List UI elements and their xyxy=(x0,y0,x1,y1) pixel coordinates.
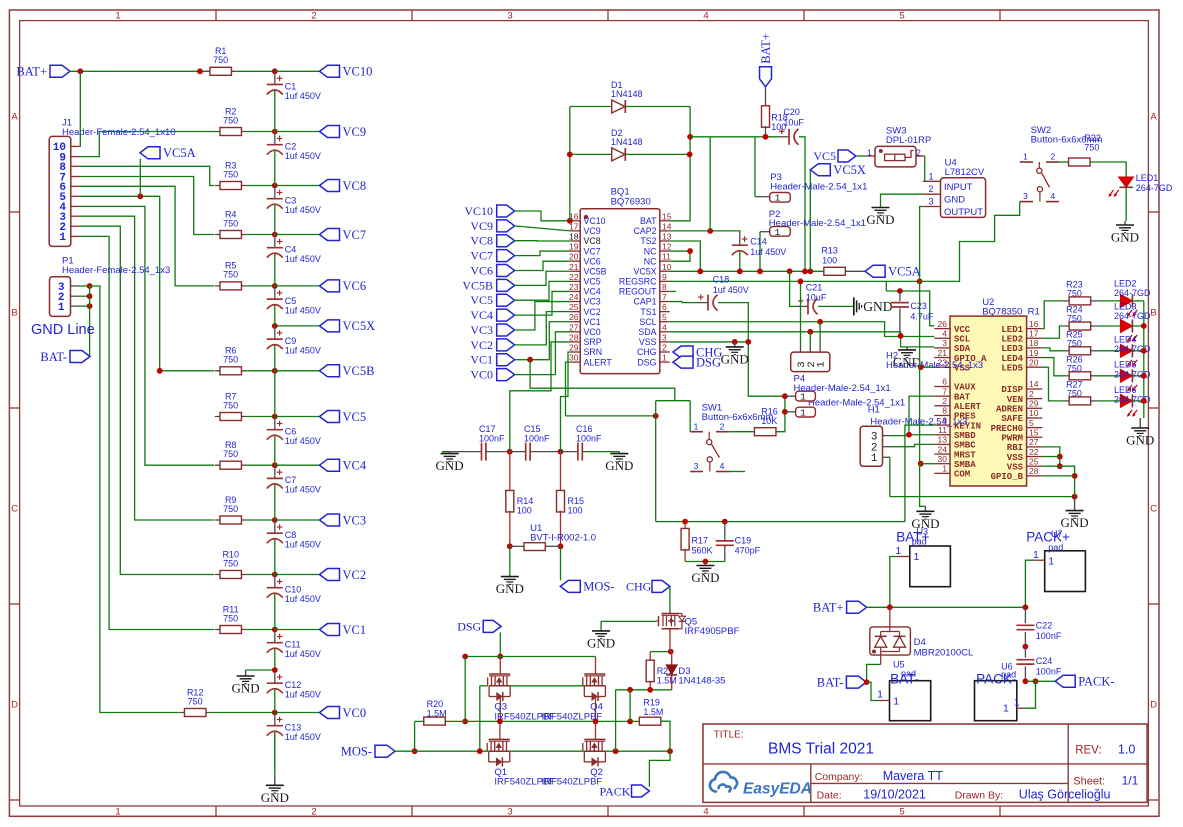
svg-text:100nF: 100nF xyxy=(1036,631,1062,641)
svg-text:4: 4 xyxy=(942,328,947,338)
svg-text:30: 30 xyxy=(938,454,948,464)
svg-text:EasyEDA: EasyEDA xyxy=(743,781,812,798)
svg-text:LED4: LED4 xyxy=(1001,354,1023,364)
svg-text:CAP2: CAP2 xyxy=(634,226,657,236)
svg-text:3: 3 xyxy=(507,11,512,22)
svg-text:560K: 560K xyxy=(692,545,713,555)
svg-text:4: 4 xyxy=(1051,191,1056,201)
svg-text:1: 1 xyxy=(694,421,699,431)
svg-text:VC6: VC6 xyxy=(343,279,367,293)
svg-text:R19: R19 xyxy=(643,698,660,708)
svg-text:VC7: VC7 xyxy=(343,228,367,242)
svg-text:BAT-: BAT- xyxy=(40,350,67,364)
svg-text:28: 28 xyxy=(1029,466,1039,476)
svg-text:1: 1 xyxy=(893,696,899,708)
svg-text:100: 100 xyxy=(568,506,583,516)
svg-text:VC1: VC1 xyxy=(470,353,493,367)
svg-text:1: 1 xyxy=(942,464,947,474)
svg-text:1: 1 xyxy=(877,689,883,701)
svg-text:GND: GND xyxy=(866,212,894,227)
svg-text:750: 750 xyxy=(223,613,238,623)
svg-text:VC0: VC0 xyxy=(470,368,493,382)
svg-text:264-7GD: 264-7GD xyxy=(1114,311,1151,321)
svg-text:SMBA: SMBA xyxy=(954,460,976,470)
svg-text:LED2: LED2 xyxy=(1114,278,1137,288)
svg-text:1uf 450V: 1uf 450V xyxy=(285,690,321,700)
svg-text:C6: C6 xyxy=(285,427,297,437)
svg-text:1uf 450V: 1uf 450V xyxy=(285,649,321,659)
svg-text:4.7uF: 4.7uF xyxy=(910,312,934,322)
svg-text:13: 13 xyxy=(938,435,948,445)
svg-text:4: 4 xyxy=(703,807,708,818)
svg-text:VAUX: VAUX xyxy=(954,383,976,393)
svg-text:4: 4 xyxy=(662,322,667,332)
svg-text:GND: GND xyxy=(1126,433,1154,448)
svg-text:25: 25 xyxy=(1029,456,1039,466)
svg-text:BAT+: BAT+ xyxy=(813,601,844,615)
svg-text:Date:: Date: xyxy=(817,790,842,802)
svg-text:Header-Female-2.54_1x10: Header-Female-2.54_1x10 xyxy=(62,127,176,138)
svg-text:1N4148-35: 1N4148-35 xyxy=(678,676,725,687)
svg-text:VC5: VC5 xyxy=(584,277,601,287)
svg-text:1uf 450V: 1uf 450V xyxy=(285,436,321,446)
svg-text:30: 30 xyxy=(569,353,579,363)
svg-text:BQ76930: BQ76930 xyxy=(611,196,651,207)
svg-text:14: 14 xyxy=(1029,379,1039,389)
svg-text:20: 20 xyxy=(569,252,579,262)
svg-text:ALERT: ALERT xyxy=(954,402,982,412)
svg-text:SRP: SRP xyxy=(584,337,602,347)
svg-text:Header-Male-2.54_1x1: Header-Male-2.54_1x1 xyxy=(770,181,867,192)
svg-text:1uf 450V: 1uf 450V xyxy=(750,247,786,257)
svg-text:3: 3 xyxy=(1023,191,1028,201)
svg-text:BAT: BAT xyxy=(640,216,657,226)
svg-text:COM: COM xyxy=(954,470,970,480)
svg-text:VC9: VC9 xyxy=(343,125,367,139)
svg-text:8: 8 xyxy=(942,406,947,416)
svg-text:MOS-: MOS- xyxy=(341,745,372,759)
svg-text:24: 24 xyxy=(569,292,579,302)
svg-text:1.0: 1.0 xyxy=(1118,742,1135,756)
svg-text:VC5B: VC5B xyxy=(343,364,375,378)
svg-text:C: C xyxy=(11,503,18,514)
svg-text:VC5X: VC5X xyxy=(343,319,376,333)
svg-text:Header-Male-2.54_1x3: Header-Male-2.54_1x3 xyxy=(870,416,967,427)
svg-text:1: 1 xyxy=(115,807,120,818)
svg-text:C: C xyxy=(1150,503,1157,514)
svg-text:REV:: REV: xyxy=(1075,744,1101,756)
svg-text:H1: H1 xyxy=(868,404,880,415)
svg-text:Ulaş Görcelioğlu: Ulaş Görcelioğlu xyxy=(1019,788,1111,802)
svg-text:1uf 450V: 1uf 450V xyxy=(285,594,321,604)
svg-text:2: 2 xyxy=(1029,389,1034,399)
svg-text:12: 12 xyxy=(662,242,672,252)
svg-text:3: 3 xyxy=(662,332,667,342)
svg-text:SDA: SDA xyxy=(954,344,971,354)
svg-text:VC10: VC10 xyxy=(464,204,493,218)
svg-text:29: 29 xyxy=(569,343,579,353)
svg-text:27: 27 xyxy=(1029,437,1039,447)
svg-text:2: 2 xyxy=(1051,152,1056,162)
svg-text:VC5X: VC5X xyxy=(634,266,657,276)
svg-text:5: 5 xyxy=(899,11,904,22)
svg-text:PACK-: PACK- xyxy=(1078,675,1114,689)
svg-text:DSG: DSG xyxy=(696,355,721,369)
svg-text:SDA: SDA xyxy=(638,327,656,337)
svg-text:U7: U7 xyxy=(1051,529,1063,539)
svg-text:2: 2 xyxy=(311,11,316,22)
svg-text:5: 5 xyxy=(899,807,904,818)
svg-text:VC8: VC8 xyxy=(343,179,367,193)
svg-text:Mavera TT: Mavera TT xyxy=(883,769,944,783)
svg-text:L7812CV: L7812CV xyxy=(945,167,985,178)
svg-text:10K: 10K xyxy=(761,416,777,426)
svg-text:264-7GD: 264-7GD xyxy=(1136,183,1173,193)
svg-text:100nF: 100nF xyxy=(1036,667,1062,677)
svg-text:1: 1 xyxy=(662,353,667,363)
svg-text:MOS-: MOS- xyxy=(583,580,614,594)
svg-text:CHG: CHG xyxy=(626,580,652,594)
svg-text:100nF: 100nF xyxy=(524,434,550,444)
svg-text:MBR20100CL: MBR20100CL xyxy=(914,648,974,659)
svg-text:750: 750 xyxy=(223,558,238,568)
svg-text:1: 1 xyxy=(58,302,65,314)
svg-text:VC2: VC2 xyxy=(343,568,367,582)
svg-text:B: B xyxy=(1150,307,1156,318)
svg-text:VC4: VC4 xyxy=(584,287,601,297)
svg-text:BAT+: BAT+ xyxy=(759,33,773,64)
svg-text:C20: C20 xyxy=(783,107,800,117)
svg-text:GND: GND xyxy=(721,351,749,366)
svg-text:Drawn By:: Drawn By: xyxy=(955,790,1003,802)
svg-text:BAT: BAT xyxy=(954,392,971,402)
svg-text:10: 10 xyxy=(662,262,672,272)
svg-text:20: 20 xyxy=(1029,357,1039,367)
svg-text:REGSRC: REGSRC xyxy=(619,277,657,287)
svg-text:4: 4 xyxy=(720,461,725,471)
svg-text:1: 1 xyxy=(914,551,920,563)
svg-text:C5: C5 xyxy=(285,296,297,306)
svg-text:GND: GND xyxy=(944,195,965,206)
svg-text:VSS: VSS xyxy=(1007,462,1024,472)
svg-text:1N4148: 1N4148 xyxy=(611,137,643,147)
svg-text:C1: C1 xyxy=(285,81,297,91)
svg-text:19/10/2021: 19/10/2021 xyxy=(863,788,926,802)
svg-text:DSG: DSG xyxy=(457,620,481,634)
svg-text:C21: C21 xyxy=(806,282,823,292)
svg-text:VSS: VSS xyxy=(639,337,657,347)
svg-text:REGOUT: REGOUT xyxy=(619,287,657,297)
svg-text:GND Line: GND Line xyxy=(31,322,95,338)
svg-text:750: 750 xyxy=(223,115,238,125)
svg-text:NC: NC xyxy=(644,246,657,256)
svg-text:10uF: 10uF xyxy=(806,293,827,303)
svg-text:1: 1 xyxy=(928,171,933,181)
svg-text:MRST: MRST xyxy=(954,450,976,460)
svg-text:PRECHG: PRECHG xyxy=(991,424,1023,434)
svg-text:VSS: VSS xyxy=(1007,453,1024,463)
svg-text:8: 8 xyxy=(662,282,667,292)
svg-text:C8: C8 xyxy=(285,530,297,540)
svg-text:SCL: SCL xyxy=(954,334,970,344)
svg-text:GND: GND xyxy=(691,570,719,585)
svg-text:CAP1: CAP1 xyxy=(634,297,657,307)
svg-text:LED5: LED5 xyxy=(1001,363,1023,373)
svg-text:VC4: VC4 xyxy=(470,308,493,322)
svg-text:VC5B: VC5B xyxy=(462,278,493,292)
svg-text:IRF4905PBF: IRF4905PBF xyxy=(685,626,740,637)
svg-text:21: 21 xyxy=(938,348,948,358)
svg-text:2: 2 xyxy=(311,807,316,818)
svg-text:VC3: VC3 xyxy=(470,323,493,337)
svg-text:750: 750 xyxy=(223,355,238,365)
svg-text:7: 7 xyxy=(942,386,947,396)
svg-text:INPUT: INPUT xyxy=(944,182,973,193)
svg-text:VC9: VC9 xyxy=(584,226,601,236)
svg-text:A: A xyxy=(11,111,18,122)
svg-text:1: 1 xyxy=(115,11,120,22)
svg-text:C23: C23 xyxy=(910,301,927,311)
svg-text:OUTPUT: OUTPUT xyxy=(944,207,983,218)
svg-text:1uf 450V: 1uf 450V xyxy=(285,205,321,215)
svg-text:VC10: VC10 xyxy=(343,65,373,79)
svg-text:2: 2 xyxy=(928,184,933,194)
svg-text:PWRM: PWRM xyxy=(1001,433,1023,443)
svg-text:pad: pad xyxy=(1001,670,1016,680)
svg-text:13: 13 xyxy=(662,231,672,241)
svg-text:25: 25 xyxy=(569,302,579,312)
svg-text:TITLE:: TITLE: xyxy=(714,730,744,741)
svg-text:750: 750 xyxy=(223,270,238,280)
svg-text:C3: C3 xyxy=(285,196,297,206)
svg-text:750: 750 xyxy=(1084,142,1099,152)
svg-text:Q4: Q4 xyxy=(590,702,603,713)
svg-text:1: 1 xyxy=(1003,703,1009,715)
svg-text:pad: pad xyxy=(901,669,916,679)
svg-text:LED1: LED1 xyxy=(1136,173,1159,183)
svg-text:GND: GND xyxy=(1061,515,1089,530)
svg-text:18: 18 xyxy=(1029,338,1039,348)
svg-text:750: 750 xyxy=(188,696,203,706)
svg-text:Q2: Q2 xyxy=(590,767,603,778)
svg-text:IRF540ZLPBF: IRF540ZLPBF xyxy=(542,777,603,788)
svg-text:1: 1 xyxy=(1048,556,1054,568)
svg-text:29: 29 xyxy=(1029,399,1039,409)
svg-text:VC1: VC1 xyxy=(584,317,601,327)
svg-text:VC0: VC0 xyxy=(343,706,367,720)
svg-text:LED3: LED3 xyxy=(1001,344,1023,354)
svg-text:C17: C17 xyxy=(479,424,496,434)
svg-text:ALERT: ALERT xyxy=(584,357,613,367)
svg-text:NC: NC xyxy=(644,256,657,266)
svg-text:LED3: LED3 xyxy=(1114,301,1137,311)
svg-text:1.5M: 1.5M xyxy=(643,707,663,717)
svg-text:DSG: DSG xyxy=(637,357,656,367)
svg-text:1: 1 xyxy=(816,361,828,367)
svg-text:C16: C16 xyxy=(576,424,593,434)
svg-text:GND: GND xyxy=(436,458,464,473)
svg-text:SAFE: SAFE xyxy=(1001,414,1023,424)
svg-text:9: 9 xyxy=(662,272,667,282)
svg-text:VCC: VCC xyxy=(954,325,971,335)
svg-text:2: 2 xyxy=(720,421,725,431)
svg-text:VC8: VC8 xyxy=(584,236,601,246)
svg-text:1: 1 xyxy=(59,232,66,244)
svg-text:Company:: Company: xyxy=(815,771,863,783)
svg-text:C14: C14 xyxy=(750,237,767,247)
svg-text:1: 1 xyxy=(895,545,901,557)
svg-text:GND: GND xyxy=(893,354,921,369)
svg-text:RBI: RBI xyxy=(1007,443,1023,453)
svg-text:C19: C19 xyxy=(735,536,752,546)
svg-text:2: 2 xyxy=(942,396,947,406)
svg-text:pad: pad xyxy=(912,537,927,547)
svg-text:1uf 450V: 1uf 450V xyxy=(285,91,321,101)
svg-text:BMS Trial 2021: BMS Trial 2021 xyxy=(768,740,874,757)
svg-text:1uf 450V: 1uf 450V xyxy=(285,151,321,161)
svg-text:26: 26 xyxy=(938,319,948,329)
svg-text:1: 1 xyxy=(871,453,878,465)
svg-text:C9: C9 xyxy=(285,336,297,346)
svg-text:1: 1 xyxy=(775,227,781,238)
svg-text:C22: C22 xyxy=(1036,621,1053,631)
svg-text:750: 750 xyxy=(223,449,238,459)
svg-text:ADREN: ADREN xyxy=(996,405,1023,415)
svg-text:VC5X: VC5X xyxy=(833,163,866,177)
svg-text:C24: C24 xyxy=(1036,656,1053,666)
svg-text:2: 2 xyxy=(662,343,667,353)
svg-text:1: 1 xyxy=(800,407,806,418)
svg-text:C10: C10 xyxy=(285,585,302,595)
svg-text:1uf 450V: 1uf 450V xyxy=(285,540,321,550)
svg-text:VC6: VC6 xyxy=(584,256,601,266)
svg-text:VC2: VC2 xyxy=(584,307,601,317)
svg-text:C2: C2 xyxy=(285,142,297,152)
svg-text:A: A xyxy=(1150,111,1157,122)
svg-text:VC7: VC7 xyxy=(584,246,601,256)
svg-text:1.5M: 1.5M xyxy=(657,676,677,686)
svg-text:DISP: DISP xyxy=(1001,385,1023,395)
svg-text:C15: C15 xyxy=(524,424,541,434)
svg-text:VC6: VC6 xyxy=(470,264,493,278)
svg-text:SCL: SCL xyxy=(639,317,656,327)
svg-text:R17: R17 xyxy=(692,536,709,546)
svg-text:VC3: VC3 xyxy=(584,297,601,307)
svg-text:3: 3 xyxy=(942,338,947,348)
svg-text:3: 3 xyxy=(694,461,699,471)
svg-text:C11: C11 xyxy=(285,640,301,650)
svg-text:23: 23 xyxy=(569,282,579,292)
svg-text:22: 22 xyxy=(569,272,579,282)
svg-text:SMBC: SMBC xyxy=(954,441,976,451)
svg-text:C13: C13 xyxy=(285,723,302,733)
svg-text:LED4: LED4 xyxy=(1114,334,1137,344)
svg-text:BAT-: BAT- xyxy=(817,675,844,689)
svg-text:16: 16 xyxy=(1029,319,1039,329)
svg-text:6: 6 xyxy=(942,377,947,387)
svg-text:VC5A: VC5A xyxy=(888,265,921,279)
svg-text:5: 5 xyxy=(1029,418,1034,428)
svg-text:7: 7 xyxy=(662,292,667,302)
svg-text:VC5: VC5 xyxy=(813,149,836,163)
svg-text:19: 19 xyxy=(1029,348,1039,358)
svg-text:5: 5 xyxy=(662,312,667,322)
svg-text:1/1: 1/1 xyxy=(1122,774,1139,788)
svg-text:750: 750 xyxy=(223,504,238,514)
svg-text:D: D xyxy=(11,699,18,710)
svg-text:SRN: SRN xyxy=(584,347,603,357)
svg-text:GPIO_B: GPIO_B xyxy=(991,472,1024,482)
svg-text:BAT+: BAT+ xyxy=(16,65,47,79)
svg-text:VC2: VC2 xyxy=(470,338,493,352)
svg-text:15: 15 xyxy=(662,211,672,221)
svg-text:1: 1 xyxy=(1023,152,1028,162)
svg-text:Header-Male-2.54_1x1: Header-Male-2.54_1x1 xyxy=(794,383,891,394)
svg-text:100: 100 xyxy=(822,255,837,265)
svg-text:470pF: 470pF xyxy=(735,545,761,555)
svg-text:1uf 450V: 1uf 450V xyxy=(713,285,749,295)
svg-text:TS1: TS1 xyxy=(640,307,656,317)
svg-text:3: 3 xyxy=(928,197,933,207)
svg-text:GND: GND xyxy=(863,299,892,314)
svg-text:R22: R22 xyxy=(1084,133,1101,143)
svg-text:1: 1 xyxy=(775,193,781,204)
svg-text:D: D xyxy=(1150,699,1157,710)
svg-text:R16: R16 xyxy=(761,406,778,416)
svg-text:R13: R13 xyxy=(821,246,838,256)
svg-text:1uf 450V: 1uf 450V xyxy=(285,305,321,315)
svg-text:1uf 450V: 1uf 450V xyxy=(285,254,321,264)
svg-text:6: 6 xyxy=(662,302,667,312)
svg-text:750: 750 xyxy=(223,169,238,179)
svg-text:PACK-: PACK- xyxy=(600,784,635,798)
svg-text:LED5: LED5 xyxy=(1114,360,1137,370)
svg-text:DPL-01RP: DPL-01RP xyxy=(886,135,931,146)
svg-text:750: 750 xyxy=(223,218,238,228)
svg-text:GND: GND xyxy=(496,581,524,596)
svg-text:C4: C4 xyxy=(285,245,297,255)
svg-text:LED2: LED2 xyxy=(1001,334,1023,344)
svg-text:21: 21 xyxy=(569,262,579,272)
svg-text:1uf 450V: 1uf 450V xyxy=(285,732,321,742)
svg-text:IRF540ZLPBF: IRF540ZLPBF xyxy=(542,711,603,722)
svg-text:VC5A: VC5A xyxy=(163,146,196,160)
svg-text:3: 3 xyxy=(507,807,512,818)
svg-text:VC5: VC5 xyxy=(470,293,493,307)
svg-text:C7: C7 xyxy=(285,475,297,485)
svg-text:LED1: LED1 xyxy=(1001,325,1023,335)
svg-text:R14: R14 xyxy=(517,496,534,506)
svg-text:100nF: 100nF xyxy=(479,434,505,444)
svg-text:VC9: VC9 xyxy=(470,219,493,233)
svg-text:VC8: VC8 xyxy=(470,234,493,248)
svg-text:VC1: VC1 xyxy=(343,623,367,637)
svg-text:GND: GND xyxy=(605,458,633,473)
svg-text:264-7GD: 264-7GD xyxy=(1114,288,1151,298)
svg-text:GND: GND xyxy=(587,635,615,650)
svg-text:C12: C12 xyxy=(285,680,302,690)
svg-text:1: 1 xyxy=(1033,549,1039,561)
svg-text:750: 750 xyxy=(213,55,228,65)
svg-text:TS2: TS2 xyxy=(640,236,656,246)
svg-text:1uf 450V: 1uf 450V xyxy=(285,485,321,495)
svg-text:27: 27 xyxy=(569,322,579,332)
svg-text:1uf 450V: 1uf 450V xyxy=(285,345,321,355)
svg-text:100: 100 xyxy=(517,506,532,516)
svg-text:1: 1 xyxy=(1014,697,1020,709)
svg-text:VC7: VC7 xyxy=(470,249,493,263)
svg-text:10: 10 xyxy=(1029,408,1039,418)
